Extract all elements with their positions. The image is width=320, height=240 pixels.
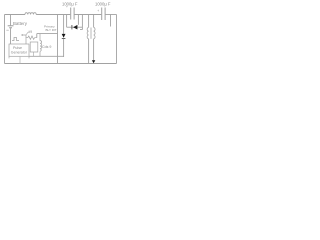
SCR anode wire — [63, 15, 65, 34]
resistor R1 — [26, 36, 37, 39]
transformer T1 lead right top — [93, 15, 95, 28]
svg-text:λ9: λ9 — [29, 30, 33, 34]
wire coil top — [39, 34, 41, 41]
SCR/diode triangle down — [62, 34, 66, 38]
wire bottom rail — [5, 63, 117, 65]
battery B1 plates — [8, 26, 14, 28]
square wave glyph — [12, 38, 19, 41]
transformer T1 right winding — [94, 27, 95, 38]
svg-text:Battery: Battery — [13, 21, 28, 26]
svg-text:Pulse: Pulse — [13, 46, 22, 50]
wire coil bottom — [39, 52, 41, 57]
wire battery to box — [10, 28, 12, 44]
transformer T1 lead left top — [88, 15, 90, 28]
battery minus dash — [6, 29, 9, 31]
wire box bottom lead — [33, 52, 35, 56]
coil T0 vertical — [40, 41, 42, 52]
SCR cathode wire — [63, 39, 65, 57]
wire resistor up — [36, 34, 38, 38]
wire gate corner w/ arrow — [23, 35, 27, 44]
svg-text:+: + — [66, 5, 68, 9]
capacitor C2 plates — [102, 8, 105, 21]
transformer core lines — [90, 28, 93, 39]
inductor L1 — [25, 13, 36, 15]
arrowhead on corner — [21, 34, 23, 36]
wire top rail left — [5, 14, 26, 16]
wire drop to diode — [77, 15, 79, 25]
wire drop B w/hook — [80, 15, 82, 30]
wire top rail mid — [36, 14, 70, 16]
diode D1 triangle left — [73, 25, 77, 30]
trigger box — [30, 42, 38, 52]
svg-text:Cds 9: Cds 9 — [42, 45, 51, 49]
wire ground bus y56 — [29, 55, 64, 57]
svg-text:BLY RIT: BLY RIT — [46, 28, 57, 32]
wire cap drop — [66, 15, 68, 28]
transformer T1 left winding — [87, 27, 88, 38]
svg-text:+: + — [97, 9, 99, 13]
wire battery stub — [10, 15, 12, 26]
box side stubs — [9, 56, 29, 58]
wire output stub — [110, 15, 112, 27]
transformer lead left bottom — [88, 39, 90, 64]
svg-text:1000µ F: 1000µ F — [95, 1, 111, 6]
wire top rail mid2 — [75, 14, 102, 16]
spark arrow down — [92, 60, 95, 63]
transformer lead right bottom — [93, 39, 95, 61]
capacitor C1 plates — [71, 8, 74, 20]
SCR cathode bar — [62, 38, 66, 40]
pulse generator box — [9, 44, 29, 56]
svg-text:Generator: Generator — [11, 51, 28, 55]
diode D1 wire — [67, 26, 83, 28]
wire gate horizontal — [37, 33, 58, 35]
wire box to bottom rail — [19, 56, 21, 63]
wire center vertical A — [57, 15, 59, 64]
diode D1 bar — [71, 25, 73, 29]
wire top rail right — [106, 14, 117, 16]
diagonal gate mark — [26, 32, 29, 35]
wire left border — [4, 15, 6, 64]
wire right border — [116, 15, 118, 64]
svg-text:1000µ F: 1000µ F — [62, 1, 78, 6]
